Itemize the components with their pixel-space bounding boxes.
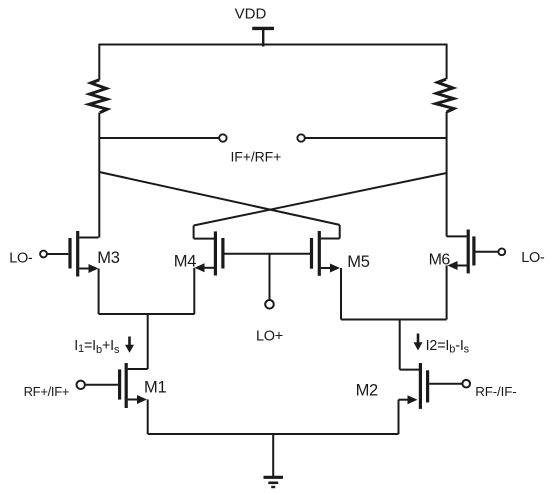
resistor R (left load)	[89, 80, 107, 113]
svg-text:IF+/RF+: IF+/RF+	[231, 149, 282, 165]
wire: left rail top (VDD rail to R1)	[98, 44, 100, 80]
ground symbol	[264, 477, 284, 487]
wire: left tail horizontal (M3/M4 sources)	[99, 313, 195, 315]
terminal circle RF+/IF+	[77, 381, 85, 389]
terminal circle LO- left	[40, 251, 47, 258]
wire: right tail drop to M2 drain	[399, 320, 401, 370]
transistor M1	[85, 363, 148, 408]
svg-text:M1: M1	[144, 379, 166, 397]
current arrow I2	[417, 334, 420, 344]
wire: cross-couple diagonal from left node to M5 drain	[99, 172, 339, 225]
wire: bottom ground rail	[148, 433, 399, 435]
wire: cross-couple diagonal from right node to M4 drain	[194, 173, 447, 226]
wire: left rail mid (R1 to M3 drain, node for IF+ tap and cross-couple)	[98, 113, 100, 238]
wire: stub M4 drain	[193, 226, 195, 239]
svg-text:LO-: LO-	[9, 250, 33, 266]
terminal circle IF+/RF+ right	[297, 134, 304, 141]
svg-text:M2: M2	[356, 382, 378, 400]
transistor M4 (mirrored)	[194, 231, 223, 275]
power supply symbol VDD	[252, 27, 274, 30]
svg-text:LO+: LO+	[256, 329, 283, 345]
wire: right rail top (VDD rail to R2)	[446, 44, 448, 80]
transistor M2 (mirrored)	[399, 363, 463, 409]
wire: left tail drop to M1 drain	[147, 314, 149, 369]
terminal circle LO+	[265, 300, 274, 309]
wire: right output tap to terminal	[305, 137, 447, 139]
current arrow I1	[128, 337, 131, 346]
wire: M3 source down to left tail	[98, 269, 100, 315]
transistor M3	[47, 231, 98, 277]
svg-text:M4: M4	[174, 252, 196, 270]
wire: LO+ stub down	[269, 254, 271, 300]
transistor M6 (mirrored)	[447, 230, 499, 274]
wire: right rail mid (R2 to M6 drain)	[446, 112, 448, 236]
svg-text:RF+/IF+: RF+/IF+	[24, 384, 70, 399]
svg-text:VDD: VDD	[235, 6, 267, 23]
wire: left output tap to IF+/RF+ terminal	[99, 137, 219, 139]
wire: M5 source down to right tail	[340, 268, 342, 320]
terminal circle IF+/RF+ left	[219, 134, 226, 141]
wire: M2 source down to ground rail	[398, 400, 400, 434]
terminal circle RF-/IF-	[462, 380, 470, 388]
wire: stub M5 drain	[339, 225, 341, 239]
transistor M5	[312, 231, 341, 276]
wire: M6 source down to right tail	[446, 266, 448, 320]
resistor R (right load)	[436, 79, 454, 112]
wire: right tail horizontal (M5/M6 sources)	[341, 319, 447, 321]
svg-text:RF-/IF-: RF-/IF-	[475, 384, 516, 399]
wire: top rail from left rail to right rail	[99, 44, 446, 46]
wire: ground stem	[272, 434, 274, 477]
wire: M1 source down to ground rail	[147, 400, 149, 435]
svg-text:I2=Ib-Is: I2=Ib-Is	[426, 338, 470, 356]
wire: M4 source down to left tail	[193, 268, 195, 314]
svg-text:M5: M5	[347, 253, 369, 271]
wire: gate line M4-M5	[224, 253, 310, 255]
svg-text:M3: M3	[97, 249, 119, 267]
terminal circle LO- right	[498, 248, 505, 255]
svg-text:LO-: LO-	[521, 250, 545, 266]
svg-text:I1=Ib+Is: I1=Ib+Is	[74, 338, 120, 356]
